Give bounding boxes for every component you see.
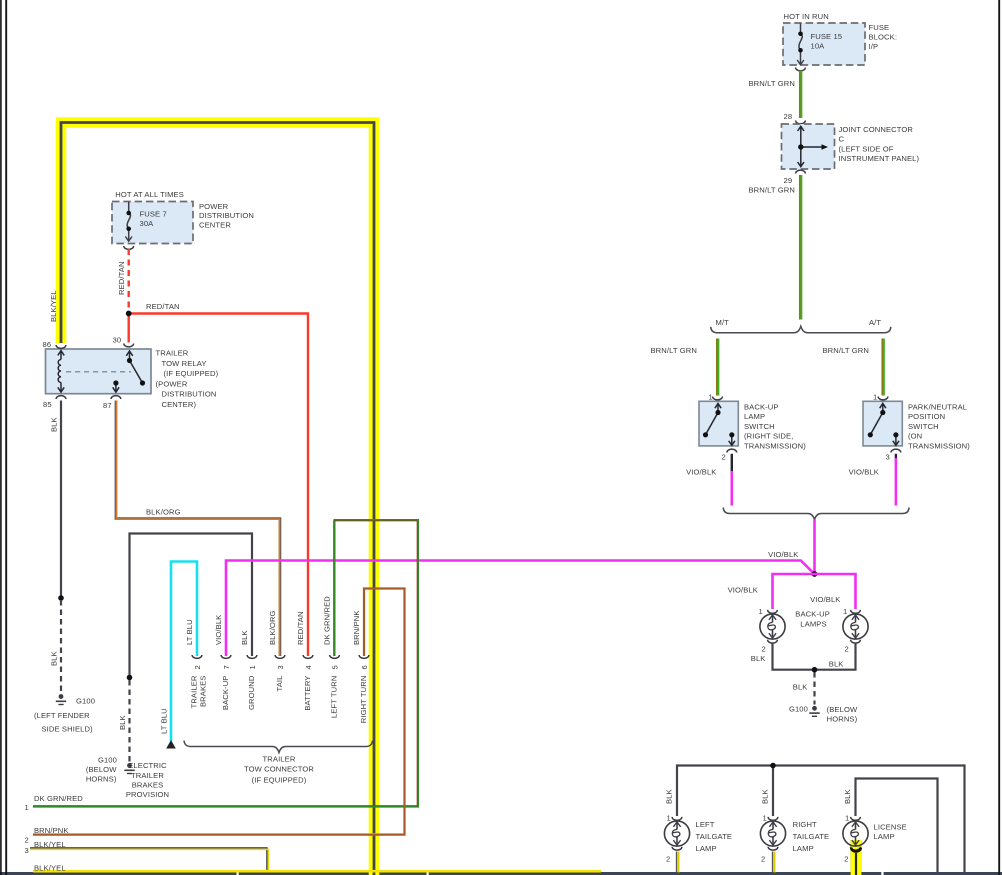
- svg-text:86: 86: [43, 340, 52, 349]
- svg-text:TRAILER: TRAILER: [156, 349, 189, 358]
- svg-text:LICENSE: LICENSE: [874, 823, 907, 832]
- svg-text:FUSE: FUSE: [869, 23, 890, 32]
- svg-text:C: C: [839, 135, 845, 144]
- svg-text:10A: 10A: [811, 42, 826, 51]
- svg-text:CENTER): CENTER): [162, 400, 197, 409]
- svg-text:DK GRN/RED: DK GRN/RED: [34, 794, 83, 803]
- svg-text:TOW RELAY: TOW RELAY: [162, 359, 207, 368]
- svg-text:BRN/LT GRN: BRN/LT GRN: [749, 186, 796, 195]
- svg-text:TRAILER: TRAILER: [263, 755, 296, 764]
- svg-text:30: 30: [113, 336, 122, 345]
- svg-text:RED/TAN: RED/TAN: [296, 611, 305, 645]
- svg-text:1: 1: [25, 803, 29, 812]
- svg-text:1: 1: [763, 814, 767, 823]
- svg-text:1: 1: [248, 665, 257, 669]
- svg-text:VIO/BLK: VIO/BLK: [768, 550, 798, 559]
- svg-text:30A: 30A: [140, 219, 155, 228]
- svg-text:LAMP: LAMP: [744, 412, 765, 421]
- svg-text:HORNS): HORNS): [86, 775, 117, 784]
- svg-text:VIO/BLK: VIO/BLK: [849, 468, 879, 477]
- svg-text:SIDE SHIELD): SIDE SHIELD): [42, 725, 94, 734]
- svg-text:2: 2: [845, 645, 849, 654]
- svg-text:LT BLU: LT BLU: [159, 708, 168, 734]
- svg-text:1: 1: [667, 814, 671, 823]
- svg-text:BLK: BLK: [240, 630, 249, 645]
- svg-text:BRAKES: BRAKES: [198, 676, 207, 708]
- svg-text:(IF EQUIPPED): (IF EQUIPPED): [252, 775, 307, 784]
- svg-text:G100: G100: [98, 756, 117, 765]
- svg-text:TRANSMISSION): TRANSMISSION): [744, 441, 806, 450]
- svg-text:3: 3: [25, 846, 29, 855]
- svg-text:BLK/YEL: BLK/YEL: [34, 840, 66, 849]
- svg-text:TRAILER: TRAILER: [189, 675, 198, 708]
- svg-text:VIO/BLK: VIO/BLK: [728, 586, 758, 595]
- svg-text:LAMP: LAMP: [874, 832, 895, 841]
- svg-text:M/T: M/T: [716, 318, 730, 327]
- svg-text:TAILGATE: TAILGATE: [793, 832, 830, 841]
- svg-text:2: 2: [761, 855, 765, 864]
- svg-text:2: 2: [762, 645, 766, 654]
- svg-text:BRN/LT GRN: BRN/LT GRN: [749, 79, 796, 88]
- svg-text:BRAKES: BRAKES: [132, 780, 164, 789]
- svg-text:BLOCK:: BLOCK:: [869, 33, 898, 42]
- svg-text:I/P: I/P: [869, 42, 879, 51]
- svg-text:BLK: BLK: [829, 660, 844, 669]
- svg-text:BLK: BLK: [751, 654, 766, 663]
- svg-text:TAILGATE: TAILGATE: [696, 832, 733, 841]
- svg-text:(LEFT FENDER: (LEFT FENDER: [34, 711, 90, 720]
- svg-text:BLK/ORG: BLK/ORG: [268, 610, 277, 645]
- svg-text:2: 2: [844, 855, 848, 864]
- svg-text:6: 6: [360, 665, 369, 669]
- svg-text:TOW CONNECTOR: TOW CONNECTOR: [244, 765, 314, 774]
- svg-text:29: 29: [784, 176, 793, 185]
- svg-text:BACK-UP: BACK-UP: [744, 403, 779, 412]
- svg-text:1: 1: [843, 607, 847, 616]
- svg-text:BLK: BLK: [50, 417, 59, 432]
- svg-text:5: 5: [331, 665, 340, 669]
- svg-text:BLK: BLK: [760, 789, 769, 804]
- svg-text:(ON: (ON: [908, 432, 922, 441]
- svg-text:3: 3: [276, 665, 285, 669]
- svg-text:2: 2: [722, 453, 726, 462]
- svg-text:BRN/PNK: BRN/PNK: [34, 826, 69, 835]
- svg-text:ELECTRIC: ELECTRIC: [128, 761, 167, 770]
- svg-text:85: 85: [43, 400, 52, 409]
- svg-text:POSITION: POSITION: [908, 412, 945, 421]
- svg-text:28: 28: [784, 112, 793, 121]
- svg-text:(IF EQUIPPED): (IF EQUIPPED): [164, 369, 219, 378]
- svg-text:VIO/BLK: VIO/BLK: [810, 595, 840, 604]
- svg-text:SWITCH: SWITCH: [744, 422, 775, 431]
- svg-text:TRANSMISSION): TRANSMISSION): [908, 441, 970, 450]
- svg-text:FUSE 15: FUSE 15: [811, 32, 843, 41]
- svg-text:SWITCH: SWITCH: [908, 422, 939, 431]
- svg-text:RED/TAN: RED/TAN: [117, 261, 126, 295]
- svg-text:A/T: A/T: [869, 318, 881, 327]
- svg-text:LEFT: LEFT: [696, 820, 715, 829]
- svg-text:DK GRN/RED: DK GRN/RED: [323, 596, 332, 645]
- svg-text:GROUND: GROUND: [247, 675, 256, 710]
- svg-text:87: 87: [103, 401, 112, 410]
- svg-text:HORNS): HORNS): [827, 715, 858, 724]
- svg-text:LT BLU: LT BLU: [185, 619, 194, 645]
- svg-text:HOT IN RUN: HOT IN RUN: [784, 12, 829, 21]
- svg-text:2: 2: [193, 665, 202, 669]
- svg-text:POWER: POWER: [199, 202, 229, 211]
- svg-text:JOINT CONNECTOR: JOINT CONNECTOR: [839, 125, 914, 134]
- svg-text:BRN/LT GRN: BRN/LT GRN: [823, 346, 870, 355]
- svg-text:BATTERY: BATTERY: [303, 676, 312, 711]
- svg-text:BLK: BLK: [50, 651, 59, 666]
- svg-text:(LEFT SIDE OF: (LEFT SIDE OF: [839, 144, 894, 153]
- svg-text:TAIL: TAIL: [275, 676, 284, 692]
- svg-text:G100: G100: [789, 705, 808, 714]
- svg-text:BLK: BLK: [664, 789, 673, 804]
- svg-text:INSTRUMENT PANEL): INSTRUMENT PANEL): [839, 154, 920, 163]
- svg-text:(BELOW: (BELOW: [86, 765, 117, 774]
- svg-text:LAMP: LAMP: [793, 844, 814, 853]
- svg-text:3: 3: [886, 453, 890, 462]
- svg-text:LEFT TURN: LEFT TURN: [330, 676, 339, 719]
- svg-text:2: 2: [25, 836, 29, 845]
- svg-text:BACK-UP: BACK-UP: [221, 676, 230, 711]
- svg-text:DISTRIBUTION: DISTRIBUTION: [162, 390, 217, 399]
- svg-text:BLK/ORG: BLK/ORG: [146, 508, 181, 517]
- svg-text:BLK: BLK: [118, 715, 127, 730]
- svg-text:(BELOW: (BELOW: [827, 705, 858, 714]
- svg-text:(RIGHT SIDE,: (RIGHT SIDE,: [744, 432, 793, 441]
- svg-text:DISTRIBUTION: DISTRIBUTION: [199, 211, 254, 220]
- svg-text:G100: G100: [76, 697, 95, 706]
- svg-text:LAMP: LAMP: [696, 844, 717, 853]
- svg-text:RED/TAN: RED/TAN: [146, 302, 180, 311]
- svg-text:BLK/YEL: BLK/YEL: [49, 290, 58, 322]
- svg-text:FUSE 7: FUSE 7: [140, 210, 167, 219]
- svg-text:VIO/BLK: VIO/BLK: [214, 615, 223, 645]
- svg-text:4: 4: [304, 665, 313, 669]
- svg-text:BRN/LT GRN: BRN/LT GRN: [651, 346, 698, 355]
- svg-text:BLK: BLK: [843, 789, 852, 804]
- svg-text:BLK: BLK: [793, 683, 808, 692]
- svg-text:PROVISION: PROVISION: [126, 790, 169, 799]
- svg-text:VIO/BLK: VIO/BLK: [686, 468, 716, 477]
- svg-text:RIGHT TURN: RIGHT TURN: [359, 676, 368, 724]
- svg-text:(POWER: (POWER: [156, 379, 188, 388]
- svg-text:RIGHT: RIGHT: [793, 820, 817, 829]
- svg-text:TRAILER: TRAILER: [131, 771, 164, 780]
- svg-text:BLK/YEL: BLK/YEL: [34, 863, 66, 872]
- svg-text:PARK/NEUTRAL: PARK/NEUTRAL: [908, 403, 967, 412]
- svg-text:1: 1: [873, 393, 877, 402]
- svg-text:CENTER: CENTER: [199, 220, 231, 229]
- svg-text:BRN/PNK: BRN/PNK: [352, 610, 361, 645]
- svg-text:HOT AT ALL TIMES: HOT AT ALL TIMES: [115, 190, 184, 199]
- svg-text:2: 2: [666, 855, 670, 864]
- svg-text:1: 1: [845, 814, 849, 823]
- svg-text:BACK-UP: BACK-UP: [795, 610, 830, 619]
- svg-text:7: 7: [222, 665, 231, 669]
- svg-text:1: 1: [759, 607, 763, 616]
- svg-text:LAMPS: LAMPS: [800, 620, 826, 629]
